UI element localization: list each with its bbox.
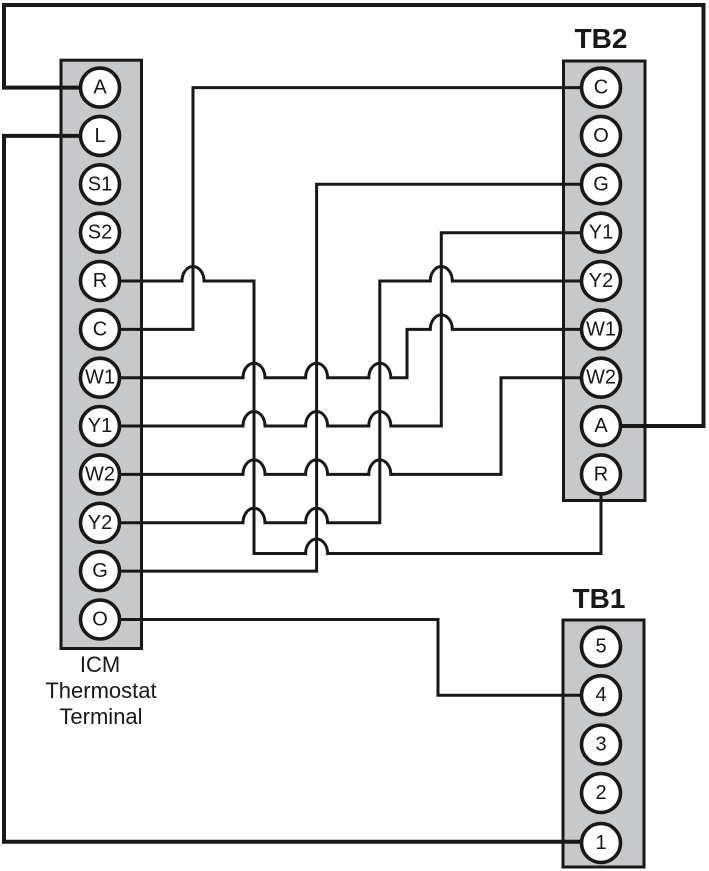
ICM terminal W1 bbox=[81, 358, 120, 397]
svg-text:A: A bbox=[594, 415, 608, 437]
svg-text:W1: W1 bbox=[85, 367, 115, 389]
ICM terminal G bbox=[81, 552, 120, 591]
wire R (ICM R to TB2 R) bbox=[100, 267, 601, 554]
TB2 terminal G bbox=[582, 165, 621, 204]
ICM terminal W2 bbox=[81, 455, 120, 494]
TB2 terminal W2 bbox=[582, 358, 621, 397]
svg-text:4: 4 bbox=[595, 684, 606, 706]
ICM terminal A bbox=[81, 68, 120, 107]
TB2 terminal O bbox=[582, 116, 621, 155]
TB2 terminal C bbox=[582, 68, 621, 107]
ICM thermostat terminal block bbox=[61, 60, 142, 648]
wire W2 (ICM W2 to TB2 W2) bbox=[100, 378, 601, 475]
TB1 terminal 4 bbox=[582, 676, 621, 715]
svg-text:S1: S1 bbox=[88, 173, 112, 195]
svg-text:5: 5 bbox=[595, 636, 606, 658]
svg-text:Y2: Y2 bbox=[589, 270, 613, 292]
TB2 terminal Y1 bbox=[582, 213, 621, 252]
svg-text:R: R bbox=[594, 463, 608, 485]
svg-text:S2: S2 bbox=[88, 222, 112, 244]
ICM terminal S1 bbox=[81, 165, 120, 204]
TB1 terminal 2 bbox=[582, 774, 621, 813]
wire A (ICM A to TB2 A via border) bbox=[4, 5, 704, 426]
TB1 terminal 5 bbox=[582, 627, 621, 666]
wire Y2 (ICM Y2 to TB2 Y2) bbox=[100, 267, 601, 523]
svg-text:Terminal: Terminal bbox=[59, 704, 142, 729]
TB2 terminal A bbox=[582, 407, 621, 446]
svg-text:C: C bbox=[93, 318, 107, 340]
svg-text:A: A bbox=[93, 77, 107, 99]
wire L (ICM L to TB1 terminal 1) bbox=[4, 136, 601, 843]
svg-text:W2: W2 bbox=[85, 463, 115, 485]
wire Y1 (ICM Y1 to TB2 Y1) bbox=[100, 233, 601, 426]
svg-text:L: L bbox=[94, 125, 105, 147]
svg-text:1: 1 bbox=[595, 832, 606, 854]
ICM terminal S2 bbox=[81, 213, 120, 252]
ICM terminal O bbox=[81, 600, 120, 639]
wire O (ICM O to TB1 terminal 4) bbox=[100, 620, 601, 696]
svg-text:Y1: Y1 bbox=[88, 415, 112, 437]
TB1 terminal 3 bbox=[582, 725, 621, 764]
svg-text:G: G bbox=[92, 560, 108, 582]
ICM terminal R bbox=[81, 262, 120, 301]
wire W1 (ICM W1 to TB2 W1) bbox=[100, 315, 601, 378]
wire G (ICM G to TB2 G) bbox=[100, 184, 601, 571]
svg-text:W1: W1 bbox=[586, 318, 616, 340]
TB2 terminal W1 bbox=[582, 310, 621, 349]
svg-text:ICM: ICM bbox=[80, 652, 120, 677]
svg-text:TB1: TB1 bbox=[573, 583, 626, 614]
ICM terminal L bbox=[81, 116, 120, 155]
terminal block TB1 bbox=[563, 620, 644, 867]
TB2 terminal Y2 bbox=[582, 262, 621, 301]
svg-text:C: C bbox=[594, 77, 608, 99]
svg-text:2: 2 bbox=[595, 782, 606, 804]
svg-text:3: 3 bbox=[595, 734, 606, 756]
TB1 terminal 1 bbox=[582, 824, 621, 863]
wire C (ICM C to TB2 C) bbox=[100, 88, 601, 330]
svg-text:TB2: TB2 bbox=[575, 23, 628, 54]
svg-text:Thermostat: Thermostat bbox=[45, 678, 156, 703]
svg-text:R: R bbox=[93, 270, 107, 292]
label ICM Thermostat Terminal bbox=[45, 652, 156, 729]
svg-text:Y2: Y2 bbox=[88, 512, 112, 534]
svg-text:Y1: Y1 bbox=[589, 222, 613, 244]
svg-text:G: G bbox=[593, 173, 609, 195]
svg-text:O: O bbox=[92, 609, 108, 631]
ICM terminal Y1 bbox=[81, 407, 120, 446]
svg-text:O: O bbox=[593, 125, 609, 147]
svg-text:W2: W2 bbox=[586, 367, 616, 389]
TB2 terminal R bbox=[582, 455, 621, 494]
ICM terminal C bbox=[81, 310, 120, 349]
terminal block TB2 bbox=[564, 61, 646, 501]
ICM terminal Y2 bbox=[81, 503, 120, 542]
